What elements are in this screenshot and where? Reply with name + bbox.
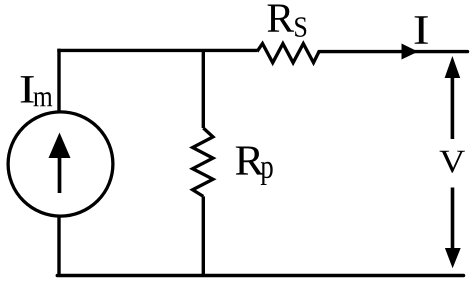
- label Im: [21, 76, 53, 106]
- label RS: [268, 5, 307, 37]
- voltage arrow top arrowhead (points up at top wire): [445, 56, 461, 78]
- voltage arrow bottom arrowhead (points down at bottom wire): [445, 248, 461, 268]
- label Rp: [236, 146, 273, 185]
- voltage arrow top shaft: [451, 74, 455, 139]
- wire: top horizontal segment, left corner to resistor RS: [57, 49, 257, 52]
- current arrowhead on top wire (direction of I): [402, 44, 419, 60]
- wire: left vertical, current source down to bottom wire: [57, 216, 60, 275]
- current source U1 (circle): [8, 112, 113, 216]
- wire: bottom horizontal: [57, 274, 463, 278]
- resistor Rp (vertical zigzag): [193, 128, 213, 196]
- resistor RS (zigzag on top wire): [257, 44, 319, 63]
- label V: [440, 151, 465, 173]
- wire: middle vertical, top wire down to resistor Rp: [202, 50, 205, 128]
- voltage arrow bottom shaft: [451, 188, 455, 251]
- wire: top horizontal segment, RS to right end: [319, 50, 468, 53]
- wire: left vertical, top wire down to current source: [57, 49, 60, 112]
- label I: [415, 16, 428, 44]
- wire: middle vertical, Rp down to bottom wire: [202, 196, 205, 275]
- current source arrow (points up): [49, 133, 71, 194]
